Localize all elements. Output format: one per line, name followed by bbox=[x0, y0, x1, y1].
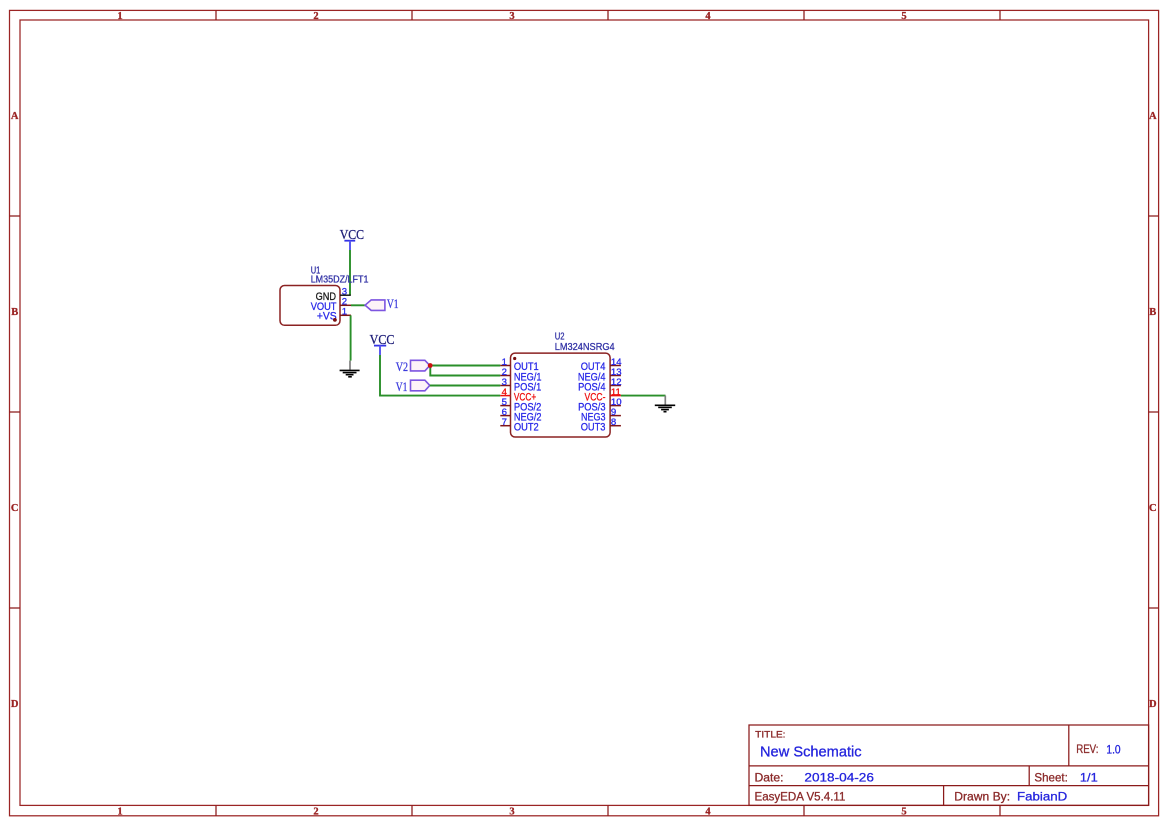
svg-text:New Schematic: New Schematic bbox=[760, 745, 862, 761]
column ticks top bbox=[216, 10, 1000, 20]
row ticks left bbox=[10, 216, 21, 608]
svg-text:LM35DZ/LFT1: LM35DZ/LFT1 bbox=[311, 274, 369, 285]
U2 pin 7 line bbox=[500, 425, 510, 427]
svg-text:Date:: Date: bbox=[755, 770, 784, 784]
svg-text:8: 8 bbox=[611, 417, 616, 428]
U2 pin 3 line bbox=[500, 385, 510, 387]
svg-text:A: A bbox=[11, 111, 19, 122]
ground symbol (right of U2) bbox=[655, 396, 675, 412]
svg-text:4: 4 bbox=[705, 806, 711, 817]
wire V1 to U2 pin 3 bbox=[430, 385, 501, 387]
svg-text:EasyEDA V5.4.11: EasyEDA V5.4.11 bbox=[755, 789, 846, 803]
svg-text:C: C bbox=[1149, 503, 1157, 514]
power flag VCC (net VCC, left of U2) bbox=[370, 333, 395, 355]
svg-text:1.0: 1.0 bbox=[1106, 744, 1120, 756]
svg-text:1: 1 bbox=[117, 11, 122, 22]
svg-text:1: 1 bbox=[342, 307, 347, 318]
svg-text:C: C bbox=[11, 503, 19, 514]
U2 pin 5 line bbox=[500, 405, 510, 407]
wire U1 pin 1 down to ground bbox=[350, 315, 352, 360]
U2 pin1 dot marker bbox=[513, 357, 516, 360]
wire VCC down and right to U2 pin 4 bbox=[380, 355, 500, 396]
title block Sheet divider bbox=[1028, 766, 1030, 786]
column ticks bottom bbox=[216, 805, 1000, 815]
svg-text:2: 2 bbox=[313, 806, 318, 817]
svg-text:A: A bbox=[1149, 111, 1157, 122]
net flag V2 (to U2 OUT1) bbox=[411, 360, 430, 371]
wire VCC to U1 pin 3 bbox=[349, 250, 351, 295]
svg-text:B: B bbox=[11, 307, 18, 318]
title block divider under date row bbox=[749, 785, 1149, 787]
U1 pin 3 line bbox=[340, 294, 351, 296]
svg-text:V1: V1 bbox=[396, 379, 408, 394]
ground symbol (below U1) bbox=[340, 361, 360, 377]
svg-text:5: 5 bbox=[901, 11, 906, 22]
row ticks right bbox=[1149, 216, 1159, 608]
U2 pin 1 line bbox=[500, 365, 510, 367]
IC U1 body bbox=[280, 286, 340, 326]
title block REV divider bbox=[1068, 725, 1070, 766]
svg-text:Sheet:: Sheet: bbox=[1034, 770, 1067, 784]
svg-text:4: 4 bbox=[705, 11, 711, 22]
svg-text:REV:: REV: bbox=[1076, 744, 1098, 756]
U2 pin 9 line bbox=[610, 415, 621, 417]
svg-text:TITLE:: TITLE: bbox=[755, 729, 785, 740]
svg-text:B: B bbox=[1149, 307, 1156, 318]
svg-text:D: D bbox=[1149, 699, 1157, 710]
svg-text:5: 5 bbox=[901, 806, 906, 817]
U2 pin 6 line bbox=[500, 415, 510, 417]
wire V2 branch down to U2 pin 2 bbox=[430, 366, 500, 376]
U2 pin 13 line bbox=[610, 375, 621, 377]
U1 pin 2 line bbox=[340, 304, 351, 306]
svg-text:7: 7 bbox=[502, 417, 507, 428]
svg-text:1/1: 1/1 bbox=[1080, 770, 1098, 784]
svg-text:OUT3: OUT3 bbox=[581, 422, 606, 434]
svg-text:FabianD: FabianD bbox=[1017, 789, 1068, 803]
wire V2 to U2 pin 1 bbox=[430, 365, 500, 367]
svg-text:3: 3 bbox=[509, 806, 514, 817]
U1 pin 1 line bbox=[340, 314, 351, 316]
title block outline bbox=[749, 725, 1149, 805]
wire U2 pin 11 to ground bbox=[621, 395, 666, 397]
U1 pin 1 dot marker bbox=[333, 318, 337, 322]
svg-text:OUT2: OUT2 bbox=[514, 422, 539, 434]
U2 pin 8 line bbox=[610, 425, 621, 427]
svg-text:2018-04-26: 2018-04-26 bbox=[804, 770, 874, 784]
svg-text:U2: U2 bbox=[555, 332, 565, 343]
U2 pin 2 line bbox=[500, 375, 510, 377]
svg-text:V2: V2 bbox=[396, 359, 408, 374]
U2 pin 12 line bbox=[610, 385, 621, 387]
U2 pin 11 line bbox=[610, 395, 621, 397]
title block DrawnBy divider bbox=[943, 786, 945, 806]
wire U1 pin 2 to net flag V1 bbox=[351, 304, 365, 306]
svg-text:D: D bbox=[11, 699, 19, 710]
svg-text:1: 1 bbox=[117, 806, 122, 817]
U2 pin 10 line bbox=[610, 405, 621, 407]
svg-text:V1: V1 bbox=[387, 296, 399, 311]
net flag V1 (to U2 POS/1) bbox=[411, 380, 430, 391]
svg-text:LM324NSRG4: LM324NSRG4 bbox=[555, 342, 615, 353]
title block divider under title row bbox=[749, 765, 1149, 767]
junction dot at V2 bbox=[428, 363, 433, 368]
svg-text:2: 2 bbox=[313, 11, 318, 22]
svg-text:Drawn By:: Drawn By: bbox=[954, 789, 1010, 803]
net flag V1 (at U1 VOUT) bbox=[365, 300, 385, 311]
svg-text:3: 3 bbox=[509, 11, 514, 22]
IC U2 body bbox=[511, 353, 611, 437]
U2 pin 4 line bbox=[500, 395, 510, 397]
power flag VCC (net VCC, above U1) bbox=[340, 228, 364, 250]
U2 pin 14 line bbox=[610, 365, 621, 367]
